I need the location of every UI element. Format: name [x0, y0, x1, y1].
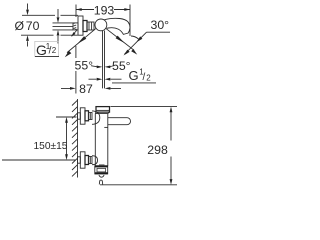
- svg-text:/: /: [143, 72, 146, 83]
- outlet cup (side view): [99, 175, 104, 177]
- svg-text:87: 87: [79, 82, 93, 96]
- lower union thread (side view): [89, 157, 93, 164]
- body ring below spout: [104, 126, 108, 128]
- lower wall nipple (side view): [78, 157, 81, 163]
- dim Ø70 arrows: [26, 4, 29, 47]
- threaded body section (top view): [87, 22, 94, 30]
- shower outlet G1/2 dim arrows: [89, 78, 122, 81]
- upper inlet elbow (side view): [92, 111, 100, 124]
- body tube (side view): [95, 114, 108, 166]
- 30° label: [151, 18, 170, 32]
- dim 298 dimension line and arrows: [170, 107, 173, 185]
- check valve bell (side view): [99, 180, 102, 184]
- dim 87 extension line: [75, 46, 77, 94]
- 55° arc with arrows: [91, 66, 115, 69]
- body cap (side view): [96, 107, 110, 113]
- svg-text:Ø: Ø: [15, 19, 25, 33]
- lower union nut (side view): [85, 156, 89, 165]
- svg-text:70: 70: [26, 19, 40, 33]
- dim 298 extension lines: [100, 107, 177, 185]
- wall section line: [77, 99, 79, 178]
- body shoulder (side view): [95, 112, 109, 114]
- dim Ø70 extension lines: [21, 15, 78, 35]
- 55° label right: [112, 59, 131, 73]
- dim 87 label: [79, 82, 93, 96]
- dim 193 extension line left: [75, 5, 77, 18]
- dim 193 dimension line: [76, 8, 130, 11]
- dim 150±15 dimension line and arrows: [65, 117, 68, 160]
- svg-text:2: 2: [52, 46, 57, 55]
- escutcheon (top view): [78, 16, 83, 35]
- dim 87 arrows: [61, 87, 121, 90]
- dim 150±15 label: [34, 141, 68, 152]
- cartridge ball body (top view): [95, 19, 107, 31]
- upper wall nipple (side view): [78, 113, 81, 119]
- bottom collar box (side view): [95, 166, 108, 174]
- spout (top view): [104, 18, 130, 34]
- 55° swivel ray right: [106, 28, 138, 54]
- 55° swivel ray left: [65, 28, 96, 57]
- upper union thread (side view): [89, 113, 93, 120]
- wall nipple thread (top view): [53, 23, 79, 30]
- lower escutcheon (side view): [80, 152, 85, 168]
- union nut (top view): [83, 21, 87, 32]
- G1/2 label (left): [35, 41, 59, 58]
- upper union nut (side view): [85, 111, 89, 121]
- svg-text:2: 2: [146, 74, 151, 83]
- svg-text:193: 193: [94, 3, 115, 17]
- svg-text:298: 298: [147, 143, 168, 157]
- dim 150±15 extension lines: [2, 117, 77, 160]
- wall hatching: [72, 100, 78, 176]
- nipple leader arrow: [71, 30, 77, 37]
- GROHE mark: [99, 164, 105, 166]
- 30° arc: [131, 36, 139, 39]
- svg-text:G: G: [129, 68, 139, 83]
- svg-text:30°: 30°: [151, 18, 170, 32]
- dim 193 extension line right: [129, 5, 131, 37]
- lower inlet elbow (side view): [92, 156, 98, 165]
- spout pill (side view): [108, 118, 131, 125]
- svg-text:55°: 55°: [75, 59, 94, 73]
- G1/2 thread dim arrows (left): [57, 9, 60, 44]
- svg-text:150±15: 150±15: [34, 141, 68, 152]
- 55° label left: [75, 59, 94, 73]
- dim 193 label: [94, 3, 115, 17]
- G1/2 label (right): [112, 68, 156, 83]
- dim 298 label: [147, 143, 168, 157]
- dim Ø70 label: [15, 19, 40, 33]
- upper escutcheon (side view): [80, 108, 85, 124]
- shower outlet stub (top view): [103, 31, 105, 89]
- 30° leader and shelf: [124, 32, 171, 55]
